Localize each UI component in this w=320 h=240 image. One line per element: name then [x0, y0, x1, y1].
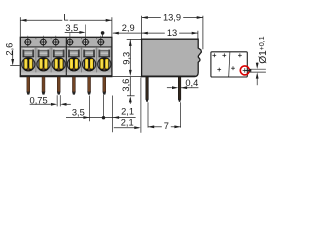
- yellow clamp spring pole 2: [40, 59, 43, 69]
- side view housing: [142, 39, 202, 76]
- dimension 7: [148, 126, 162, 128]
- pin extension lines for 7: [147, 102, 149, 127]
- svg-text:13: 13: [167, 28, 177, 38]
- svg-text:2,1: 2,1: [121, 117, 134, 127]
- drilling plan outline: [211, 52, 247, 77]
- dimension 3,6 (rotated): [129, 77, 131, 96]
- pole boundary line: [35, 48, 37, 76]
- housing middle joint line: [65, 37, 67, 76]
- housing bottom edge band: [20, 75, 112, 77]
- pole boundary line: [50, 48, 52, 76]
- push button pole 1: [23, 48, 35, 57]
- dimension 9,3 (rotated): [129, 40, 132, 46]
- svg-text:2,9: 2,9: [122, 23, 135, 33]
- push button pole 5: [83, 48, 95, 57]
- solder pin 1 (front): [27, 77, 30, 92]
- pole boundary line: [81, 48, 83, 76]
- svg-text:0,4: 0,4: [185, 78, 198, 88]
- clamp screw mark 6: [100, 36, 102, 47]
- svg-text:2,1: 2,1: [121, 107, 134, 117]
- push button pole 4: [68, 48, 80, 57]
- extension line top of side view: [127, 38, 142, 40]
- dimension 2,1 (upper): [113, 116, 119, 119]
- dimension L: [20, 19, 62, 21]
- solder pin 3 (front): [57, 77, 60, 92]
- drill hole mark: [231, 67, 235, 69]
- clamp opening ring pole 5: [83, 58, 96, 71]
- housing top face separation line: [20, 46, 112, 48]
- clamp screw mark 5: [85, 25, 87, 47]
- clamp screw mark 3: [55, 36, 57, 47]
- dimension 13: [140, 32, 165, 34]
- svg-text:L: L: [63, 12, 68, 22]
- extension line below right edge: [112, 96, 114, 133]
- terminal block housing (front view): [20, 37, 112, 76]
- svg-text:3,5: 3,5: [72, 108, 85, 118]
- side view solder pin (back row): [178, 77, 181, 100]
- clamp screw mark 4: [69, 33, 71, 47]
- extension line left edge: [19, 17, 21, 37]
- clamp opening ring pole 2: [37, 58, 50, 71]
- svg-text:13,9: 13,9: [163, 13, 181, 23]
- svg-text:9,3: 9,3: [121, 52, 131, 65]
- highlighted drill hole: [243, 69, 247, 71]
- svg-text:2,6: 2,6: [5, 43, 15, 56]
- push button pole 6: [99, 48, 111, 57]
- yellow clamp spring pole 5: [85, 59, 88, 69]
- push button pole 2: [38, 48, 50, 57]
- housing lower strip: [21, 72, 111, 75]
- side view solder pin (front row): [146, 77, 149, 100]
- push button pole 3: [53, 48, 65, 57]
- solder pin 6 (front): [103, 77, 106, 92]
- clamp opening ring pole 6: [98, 58, 111, 71]
- svg-text:3,5: 3,5: [65, 23, 78, 33]
- svg-text:7: 7: [164, 121, 169, 131]
- yellow clamp spring pole 1: [24, 59, 27, 69]
- pin 6 extension with dot: [103, 95, 105, 117]
- clamp screw mark 2: [42, 36, 44, 47]
- long lower dimension line: [66, 117, 136, 119]
- solder pin 4 (front): [72, 77, 75, 92]
- extension of side view left edge (down): [140, 77, 142, 133]
- dimension 0,4: [172, 86, 178, 89]
- yellow clamp spring pole 6: [100, 59, 103, 69]
- clamp opening ring pole 1: [22, 58, 35, 71]
- side view bottom edge band: [142, 75, 196, 77]
- diameter dimension arrows: [256, 63, 259, 69]
- pole boundary line: [96, 48, 98, 76]
- extension lines 13,9 / 13: [141, 16, 143, 39]
- red highlight circle: [240, 66, 249, 75]
- extension line right edge: [111, 17, 113, 37]
- svg-text:0,75: 0,75: [30, 95, 48, 105]
- svg-text:3,6: 3,6: [121, 79, 131, 92]
- drill hole mark: [222, 54, 226, 56]
- pole 6 center extension with dot: [102, 33, 104, 37]
- yellow clamp spring pole 4: [70, 59, 73, 69]
- drill hole mark: [217, 69, 221, 71]
- clamp screw mark 1: [27, 36, 29, 47]
- yellow clamp spring pole 3: [55, 59, 58, 69]
- drill hole mark: [212, 54, 216, 56]
- dimension 0,75: [56, 95, 58, 106]
- hole diameter leader lines: [249, 68, 266, 70]
- dimension 13,9: [142, 17, 161, 19]
- extension line bottom shared: [113, 76, 142, 78]
- solder pin 2 (front): [42, 77, 45, 92]
- break/divider line: [229, 52, 230, 77]
- clamp opening ring pole 4: [67, 58, 80, 71]
- drill hole mark: [238, 54, 242, 56]
- solder pin 5 (front): [88, 77, 91, 92]
- clamp opening ring pole 3: [52, 58, 65, 71]
